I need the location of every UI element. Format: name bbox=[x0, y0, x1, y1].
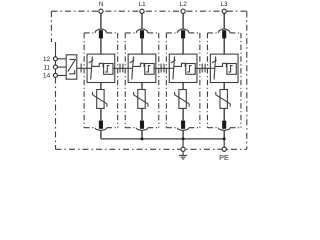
svg-text:PE: PE bbox=[219, 153, 229, 162]
svg-text:L2: L2 bbox=[180, 1, 188, 8]
svg-text:14: 14 bbox=[43, 73, 51, 80]
svg-text:N: N bbox=[99, 1, 104, 8]
svg-text:L1: L1 bbox=[139, 1, 147, 8]
svg-text:L3: L3 bbox=[221, 1, 229, 8]
svg-text:12: 12 bbox=[43, 56, 51, 63]
svg-text:11: 11 bbox=[43, 64, 50, 71]
